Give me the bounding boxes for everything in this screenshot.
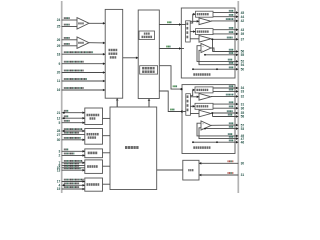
svg-text:33: 33 <box>241 90 245 94</box>
svg-text:-: - <box>202 50 203 53</box>
svg-text:24: 24 <box>57 18 61 22</box>
svg-text:37: 37 <box>241 38 245 42</box>
svg-text:12: 12 <box>57 116 61 120</box>
svg-text:5: 5 <box>59 121 61 125</box>
svg-text:11: 11 <box>57 79 61 83</box>
svg-text:9: 9 <box>59 62 61 66</box>
svg-text:46: 46 <box>241 140 245 144</box>
svg-text:50: 50 <box>241 67 245 71</box>
svg-text:30: 30 <box>57 138 61 142</box>
svg-text:55: 55 <box>241 53 245 57</box>
svg-text:13: 13 <box>57 168 61 172</box>
svg-text:26: 26 <box>57 38 61 42</box>
svg-text:18: 18 <box>57 52 61 56</box>
svg-text:32: 32 <box>241 95 245 99</box>
svg-text:29: 29 <box>57 44 61 48</box>
svg-text:20: 20 <box>57 71 61 75</box>
svg-text:54: 54 <box>241 63 245 67</box>
svg-text:36: 36 <box>241 106 245 110</box>
svg-text:16: 16 <box>57 88 61 92</box>
svg-text:53: 53 <box>241 127 245 131</box>
svg-text:2: 2 <box>59 154 61 158</box>
svg-text:21: 21 <box>57 111 61 115</box>
svg-text:42: 42 <box>241 19 245 23</box>
svg-text:30: 30 <box>241 162 245 166</box>
svg-text:31: 31 <box>241 173 245 177</box>
svg-text:39: 39 <box>241 32 245 36</box>
svg-text:27: 27 <box>57 133 61 137</box>
svg-text:25: 25 <box>57 25 61 29</box>
svg-text:-: - <box>202 127 203 130</box>
svg-text:58: 58 <box>241 115 245 119</box>
svg-text:15: 15 <box>57 187 61 191</box>
